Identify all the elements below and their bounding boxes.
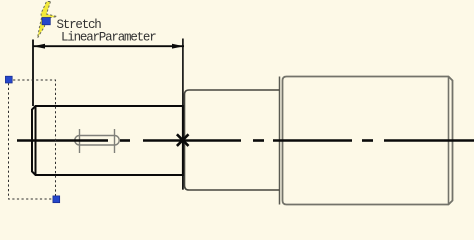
svg-text:LinearParameter: LinearParameter: [61, 31, 156, 45]
shoulder face between section 2 and section 3: [279, 77, 281, 205]
centerline (dash-dot, black): [17, 139, 474, 142]
shaft section 3 outline (large right cylinder, gray): [283, 77, 453, 205]
left extension line: [32, 40, 34, 107]
left arrowhead: [33, 44, 45, 49]
shaft section 1 outline (left small cylinder, bold black): [32, 106, 183, 175]
shaft section 2 outline (middle cylinder, gray): [185, 90, 280, 190]
keyway arc-center tick left: [79, 129, 81, 153]
keyway slot (gray): [75, 136, 119, 146]
chamfer line of section 1 left end: [35, 106, 37, 175]
shoulder between section 1 and section 2 (gray): [182, 175, 184, 190]
grip top-left of stretch frame: [5, 76, 12, 83]
right arrowhead: [172, 44, 184, 49]
dimension line: [33, 45, 184, 47]
stretch frame (dotted selection rectangle): [9, 80, 56, 199]
lightning bolt action icon: [38, 2, 58, 39]
grip bottom-right of stretch frame: [53, 196, 60, 203]
right extension line: [182, 39, 184, 190]
X marker (parameter endpoint): [177, 134, 189, 146]
grip on action icon: [42, 18, 50, 25]
chamfer line of section 3 right end: [448, 77, 450, 205]
keyway arc-center tick right: [114, 129, 116, 153]
